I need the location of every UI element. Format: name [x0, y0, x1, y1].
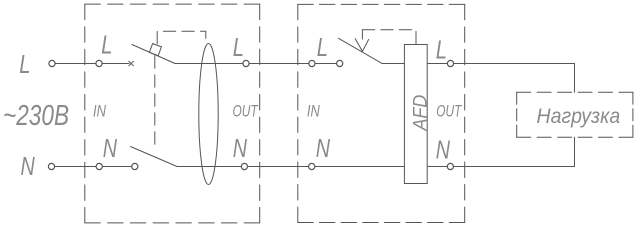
node: L source terminal [49, 60, 55, 66]
mechanical linkage dashed: square down to N blade [154, 56, 156, 149]
node: L AFDD fixed contact [337, 60, 343, 66]
node: L AFDD OUT terminal [447, 60, 453, 66]
node: L AFDD IN terminal [309, 60, 315, 66]
trip linkage dashed from arrow to AFD block [362, 30, 416, 45]
wire N up into load box [574, 137, 576, 166]
wire N AFDD OUT to load corner [453, 166, 574, 168]
wire L AFDD OUT to load corner [453, 63, 574, 65]
switch blade L pole of AFDD [339, 38, 383, 63]
svg-text:IN: IN [93, 102, 106, 121]
mechanical linkage dashed: square up over to transformer [157, 31, 206, 44]
wire L blade pivot to RCD OUT [175, 63, 243, 65]
wire N AFDD IN to AFD block [315, 166, 405, 168]
wire N RCD IN to fixed contact [102, 166, 132, 168]
svg-text:L: L [317, 33, 328, 62]
AFDD enclosure dashed box [298, 4, 465, 222]
node: L RCD IN terminal [96, 60, 102, 66]
svg-text:L: L [101, 30, 112, 59]
wire L AFDD IN to fixed contact [315, 63, 337, 65]
svg-text:IN: IN [307, 102, 320, 121]
svg-text:N: N [233, 133, 248, 162]
node: N RCD fixed contact [132, 163, 138, 169]
switch blade N pole of RCD [131, 147, 178, 167]
RCD enclosure dashed box [85, 4, 260, 223]
wire L RCD OUT to AFDD IN [249, 63, 309, 65]
wire L down into load box [574, 64, 576, 93]
svg-text:N: N [316, 133, 331, 162]
trip arrow stem [361, 30, 363, 39]
svg-text:L: L [233, 33, 244, 62]
wire L AFD block to AFDD OUT [427, 63, 448, 65]
node: N AFDD IN terminal [309, 163, 315, 169]
svg-text:N: N [21, 151, 36, 180]
svg-text:~230В: ~230В [3, 98, 69, 131]
svg-text:OUT: OUT [233, 103, 259, 122]
node: N RCD OUT terminal [241, 163, 247, 169]
node: N RCD IN terminal [96, 163, 102, 169]
wire N blade pivot to RCD OUT [177, 166, 242, 168]
wire N AFD block to AFDD OUT [427, 166, 447, 168]
wire L source to RCD IN [55, 63, 97, 65]
L fixed contact cross mark [129, 61, 134, 66]
svg-text:OUT: OUT [436, 103, 462, 122]
AFD block rectangle [404, 45, 427, 184]
trip arrowhead on AFDD blade [355, 39, 368, 52]
node: N AFDD OUT terminal [447, 163, 453, 169]
svg-text:L: L [436, 35, 447, 64]
svg-text:N: N [103, 133, 118, 162]
test button actuator square on L blade [149, 44, 161, 56]
node: N source terminal [48, 163, 54, 169]
load box (Нагрузка) dashed [517, 92, 633, 137]
svg-text:N: N [436, 135, 451, 164]
differential current transformer ellipse [199, 44, 218, 185]
wire N source to RCD IN [55, 166, 97, 168]
svg-text:L: L [19, 50, 30, 79]
switch blade L pole of RCD [132, 45, 175, 64]
node: L RCD OUT terminal [243, 60, 249, 66]
wire N RCD OUT to AFDD IN [247, 166, 309, 168]
wire L blade pivot to AFD block [382, 63, 404, 65]
wire L RCD IN to fixed contact [102, 63, 129, 65]
svg-text:AFD: AFD [409, 95, 431, 132]
svg-text:Нагрузка: Нагрузка [537, 105, 621, 128]
